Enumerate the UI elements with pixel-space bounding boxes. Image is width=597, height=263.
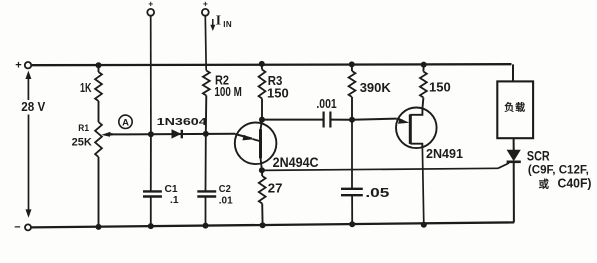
- svg-text:C1: C1: [165, 184, 178, 195]
- wire node A / UJT emitter (middle wire): [111, 131, 235, 137]
- terminal I_IN (top, x=205): [202, 0, 232, 31]
- svg-text:150: 150: [267, 86, 289, 101]
- wire load box to SCR anode: [513, 138, 515, 150]
- capacitor .001: [316, 97, 336, 128]
- svg-text:IN: IN: [223, 20, 232, 29]
- unijunction transistor 2N491: [396, 108, 463, 162]
- svg-text:+: +: [15, 60, 21, 72]
- 28V supply arrow and label: [21, 71, 46, 218]
- resistor 27: [259, 167, 283, 228]
- svg-text:2N494C: 2N494C: [273, 155, 319, 170]
- node A: [119, 115, 132, 128]
- SCR (C9F, C12F, or C40F): [507, 149, 592, 223]
- wire gate (2N494C B1 to SCR gate): [262, 163, 509, 170]
- resistor 150: [420, 62, 451, 108]
- svg-text:1K: 1K: [80, 81, 92, 95]
- capacitor C1 .1: [143, 134, 179, 229]
- svg-text:390K: 390K: [360, 80, 392, 95]
- resistor 1K: [80, 62, 102, 122]
- svg-text:25K: 25K: [72, 137, 92, 149]
- wire I_IN terminal to R2: [204, 16, 207, 71]
- diode 1N3604: [157, 117, 207, 139]
- svg-text:−: −: [14, 222, 20, 234]
- svg-text:1N3604: 1N3604: [157, 117, 207, 128]
- svg-text:(C9F, C12F,: (C9F, C12F,: [528, 163, 589, 177]
- svg-text:SCR: SCR: [527, 149, 550, 164]
- wire UJT B2 to coupling capacitor: [262, 119, 323, 121]
- load box 负载: [497, 81, 533, 138]
- svg-text:.01: .01: [219, 195, 233, 206]
- svg-text:A: A: [122, 117, 129, 128]
- svg-text:C40F): C40F): [558, 177, 592, 191]
- svg-text:.05: .05: [365, 186, 389, 200]
- terminal − (28V negative, bottom-left): [14, 222, 31, 234]
- resistor R2 100M: [203, 71, 242, 134]
- svg-text:100 M: 100 M: [214, 85, 241, 99]
- wire coupling capacitor to 2N491 emitter: [331, 117, 397, 123]
- capacitor C2 .01: [197, 134, 233, 229]
- wire top rail (+28V): [32, 64, 513, 81]
- svg-text:27: 27: [268, 181, 283, 196]
- wire bottom rail (negative): [32, 222, 515, 227]
- wire terminal to node A: [150, 16, 152, 135]
- potentiometer R1 25K: [72, 122, 113, 230]
- terminal + (28V positive, top-left): [15, 60, 31, 72]
- svg-text:负载: 负载: [504, 101, 526, 114]
- svg-text:.001: .001: [316, 97, 336, 111]
- svg-text:150: 150: [429, 79, 451, 94]
- svg-text:R1: R1: [78, 123, 89, 134]
- svg-text:C2: C2: [219, 184, 231, 195]
- resistor R3 150: [259, 61, 289, 123]
- svg-text:.1: .1: [170, 195, 179, 206]
- svg-text:或: 或: [539, 178, 550, 191]
- terminal external timing (top, x=150): [147, 0, 154, 16]
- svg-text:2N491: 2N491: [426, 147, 463, 161]
- svg-text:+: +: [203, 0, 208, 9]
- svg-text:28 V: 28 V: [21, 100, 46, 114]
- svg-text:+: +: [148, 0, 153, 9]
- svg-text:I: I: [216, 13, 221, 28]
- resistor 390K: [349, 61, 392, 119]
- unijunction transistor 2N494C: [235, 120, 319, 171]
- wire 2N491 B1 to bottom rail: [421, 148, 427, 228]
- capacitor .05: [341, 120, 389, 228]
